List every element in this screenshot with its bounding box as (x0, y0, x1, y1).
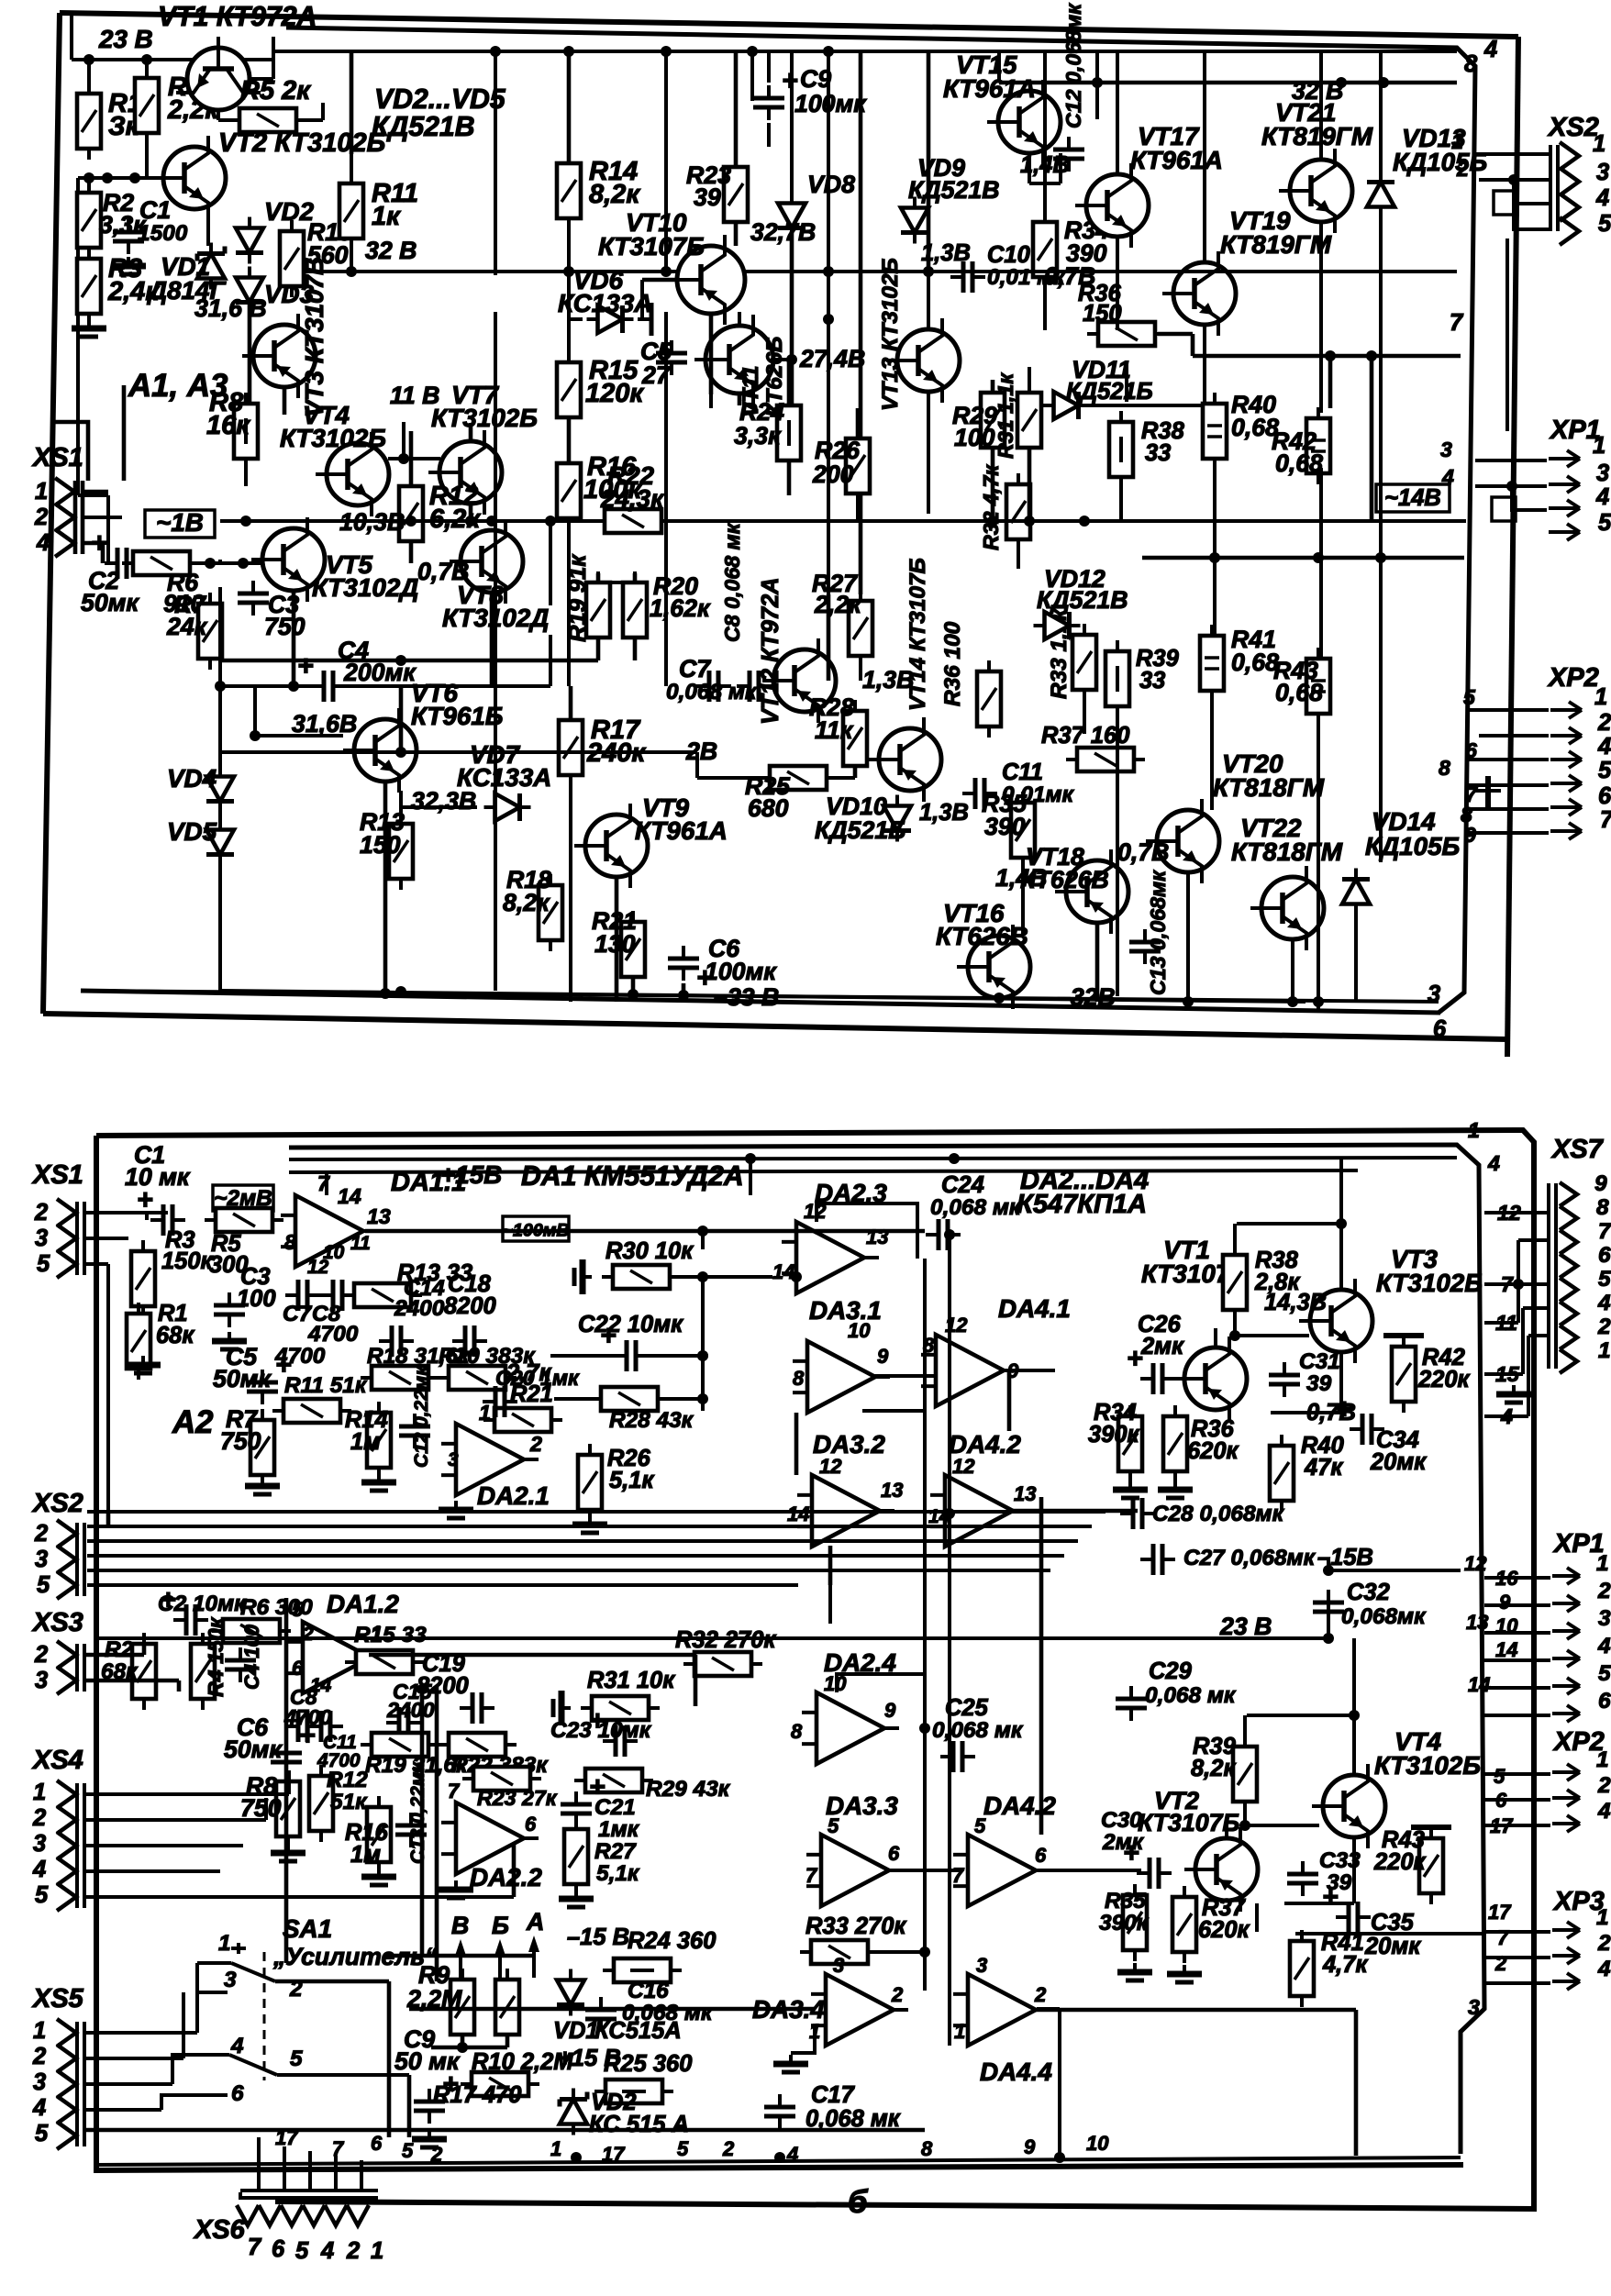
svg-text:C7: C7 (679, 655, 711, 682)
op-amp DA2.1 (441, 1401, 550, 1510)
op-amp DA1.1 (281, 1160, 502, 1278)
wire top left step (52, 385, 124, 481)
resistor R14 (557, 152, 640, 229)
resistor R31 (994, 372, 1041, 459)
svg-text:1м: 1м (350, 1842, 381, 1868)
svg-text:3: 3 (1596, 460, 1609, 486)
resistor R1 (77, 83, 142, 160)
capacitor C26 (1127, 1312, 1184, 1394)
label DA2 DA4 (1017, 1166, 1149, 1219)
junction dots bus568 (240, 516, 497, 527)
resistor R21b (483, 1360, 562, 1432)
svg-text:R23 27к: R23 27к (477, 1786, 558, 1810)
resistor R13 (360, 808, 413, 890)
wire rail 610b (78, 495, 108, 563)
svg-text:7: 7 (1497, 1926, 1510, 1949)
ground R30b (574, 1259, 592, 1294)
capacitor C21 (561, 1772, 640, 1842)
svg-text:0,68: 0,68 (1275, 449, 1323, 477)
node -15V (1317, 1545, 1373, 1570)
ground DA2.2 (271, 1844, 473, 1898)
node 0.7V a (417, 558, 469, 585)
svg-text:~1В: ~1В (156, 508, 204, 537)
capacitor C11c (285, 1711, 361, 1771)
svg-text:C22 10мк: C22 10мк (578, 1312, 683, 1337)
node 11V (390, 382, 439, 409)
svg-text:5: 5 (1598, 211, 1611, 237)
svg-text:5,1к: 5,1к (609, 1468, 654, 1493)
ground XS7 (1496, 1385, 1531, 1403)
svg-text:XS1: XS1 (31, 443, 83, 472)
svg-text:17: 17 (1488, 1901, 1512, 1924)
resistor R27 (812, 570, 872, 667)
capacitor C10 (950, 242, 1066, 293)
svg-text:13: 13 (1014, 1482, 1036, 1505)
svg-text:3: 3 (1440, 438, 1452, 461)
svg-text:R11 51к: R11 51к (284, 1373, 368, 1398)
wire 23V rail (72, 15, 275, 65)
label VT17 (1130, 122, 1223, 174)
svg-text:0,068 мк: 0,068 мк (1145, 1683, 1237, 1708)
capacitor C5b (213, 1343, 292, 1404)
capacitor C31 (1269, 1349, 1340, 1397)
label VT2b (1138, 1787, 1239, 1836)
label VT12 (758, 577, 783, 725)
svg-text:R33 270к: R33 270к (805, 1913, 906, 1939)
wire xs5 feeds (84, 1963, 925, 2130)
grounds VT2 area (1117, 1963, 1202, 1982)
svg-text:11к: 11к (815, 716, 854, 744)
diode VD14 (1342, 807, 1460, 915)
transistor VT6 (343, 708, 417, 793)
wire input buses (87, 1512, 1105, 1585)
svg-text:8: 8 (793, 1367, 805, 1390)
transistor VT10 (666, 235, 745, 325)
svg-text:3: 3 (35, 1226, 48, 1251)
svg-text:4: 4 (320, 2238, 334, 2264)
capacitor C3 (238, 581, 306, 640)
label VT18 (1020, 843, 1109, 893)
svg-text:1: 1 (35, 479, 48, 505)
svg-text:А: А (526, 1908, 544, 1936)
svg-text:XP2: XP2 (1547, 663, 1599, 693)
svg-text:12: 12 (307, 1257, 329, 1278)
resistor R16 (557, 452, 642, 529)
svg-text:7: 7 (1450, 310, 1464, 336)
svg-text:12: 12 (819, 1455, 842, 1478)
svg-text:5: 5 (292, 1598, 304, 1621)
svg-text:XS4: XS4 (31, 1746, 83, 1775)
node -32V (1057, 983, 1116, 1011)
wire R4 (145, 60, 149, 78)
svg-text:1: 1 (1596, 1905, 1609, 1930)
svg-text:3: 3 (448, 1449, 459, 1470)
capacitor C15 (386, 1680, 435, 1738)
svg-text:2: 2 (34, 1521, 48, 1547)
svg-text:+: + (1127, 1344, 1143, 1374)
resistor R23 (686, 156, 748, 233)
svg-text:8: 8 (284, 1230, 296, 1254)
svg-text:+: + (1336, 1394, 1352, 1425)
diode VD6 (558, 266, 652, 333)
svg-text:C25: C25 (945, 1695, 989, 1721)
capacitor C19 (417, 1651, 494, 1724)
connector XS5 (31, 1984, 84, 2149)
label VT19 (1220, 206, 1332, 259)
diode VD5 (167, 817, 234, 866)
svg-text:КТ3102Д: КТ3102Д (312, 573, 418, 602)
svg-text:1500: 1500 (138, 221, 188, 246)
wire DA32 in col (796, 1413, 830, 1585)
svg-text:DA1.2: DA1.2 (327, 1590, 399, 1618)
svg-text:50 мк: 50 мк (394, 2047, 461, 2075)
node 1.3V b (919, 800, 969, 826)
wire vt10 cluster (642, 51, 858, 521)
transistor VT9 (574, 804, 648, 888)
wire 2V rail (220, 747, 767, 778)
svg-text:5: 5 (37, 1572, 50, 1598)
svg-text:C8 0,068 мк: C8 0,068 мк (720, 522, 744, 642)
svg-text:4,7к: 4,7к (1322, 1952, 1368, 1978)
svg-text:9: 9 (1594, 1171, 1607, 1196)
wire VT6 emitter (401, 791, 477, 824)
capacitor C8b (307, 1280, 359, 1347)
svg-text:VT1 КТ972А: VT1 КТ972А (158, 2, 317, 32)
junction dots mid (697, 1271, 802, 1361)
boxed label ~100mV (502, 1216, 569, 1241)
wire VT13 col (927, 51, 931, 272)
feedback DA2.4 (837, 1674, 925, 1728)
connector XS1a (31, 443, 83, 557)
svg-text:3: 3 (976, 1954, 987, 1977)
resistor R15 (557, 351, 644, 428)
resistor R25 (745, 766, 838, 822)
svg-text:14: 14 (1495, 1638, 1517, 1661)
transistor VT14 (868, 717, 941, 802)
capacitor C9b (394, 2025, 461, 2124)
capacitor C9 (753, 65, 867, 120)
wire mid bus (560, 518, 563, 521)
label R36r (940, 621, 965, 706)
label VT4b (1374, 1727, 1481, 1780)
svg-text:C13 0,068мк: C13 0,068мк (1146, 870, 1170, 995)
grounds R34b R36c (1113, 1481, 1193, 1498)
wire right cluster (993, 51, 1205, 1002)
node 1.4V a (1020, 152, 1070, 178)
diode VD11 (1043, 356, 1153, 419)
wire top inner rail (273, 46, 1457, 57)
resistor R31b (581, 1668, 675, 1720)
svg-text:1: 1 (1451, 129, 1463, 153)
svg-text:11: 11 (350, 1233, 371, 1254)
svg-text:XS2: XS2 (31, 1489, 83, 1518)
resistor R32 (979, 464, 1030, 550)
resistor R2 (77, 182, 147, 259)
wire VT6 base (250, 686, 343, 741)
svg-text:C35: C35 (1371, 1910, 1415, 1936)
label VT14 (905, 558, 930, 711)
label VT15 (943, 50, 1036, 103)
transistor VT20 (1146, 799, 1219, 883)
wire bus 748 (215, 681, 550, 692)
resistor R28b (590, 1387, 694, 1433)
label VT20 (1213, 749, 1325, 802)
svg-text:C32: C32 (1347, 1580, 1390, 1605)
node 10.3V (339, 508, 405, 536)
svg-text:0,7В: 0,7В (1117, 838, 1169, 866)
svg-text:620к: 620к (1198, 1917, 1250, 1943)
svg-text:6: 6 (292, 1657, 304, 1680)
op-amp DA2.2 (441, 1780, 542, 1891)
node 2V (685, 738, 717, 765)
capacitor C33 (1287, 1848, 1361, 1896)
wire VT1b cluster (1216, 1159, 1347, 1413)
wire DA12 out (369, 1655, 695, 1706)
svg-text:R30 10к: R30 10к (606, 1238, 694, 1264)
resistor R3b (131, 1227, 214, 1317)
svg-text:C11: C11 (1002, 760, 1043, 785)
resistor R8 (206, 388, 258, 470)
resistor R33 (1047, 608, 1096, 701)
feedback rect DA2.3 (817, 1203, 917, 1259)
resistor R12 (399, 475, 481, 552)
resistor R24b (603, 1928, 716, 1982)
ground DA2.1 (245, 1473, 473, 1518)
svg-text:3,3к: 3,3к (734, 422, 782, 449)
svg-text:VD8: VD8 (807, 171, 855, 198)
svg-text:DA3.1: DA3.1 (809, 1296, 882, 1325)
wire top rails b (289, 1153, 1457, 1195)
svg-text:А2: А2 (172, 1404, 213, 1440)
op-amp DA3.4 (752, 1954, 908, 2046)
op-amp DA3.1 (793, 1296, 890, 1413)
diode VD12 (1034, 565, 1128, 639)
resistor R12b (309, 1765, 368, 1842)
op-amp DA4.2a (928, 1430, 1036, 1547)
node -33V (714, 983, 779, 1011)
svg-text:8: 8 (1464, 51, 1478, 77)
svg-text:1: 1 (1593, 131, 1605, 157)
svg-text:620к: 620к (1187, 1438, 1239, 1464)
resistor R3 (77, 248, 160, 325)
svg-text:750: 750 (220, 1427, 261, 1455)
svg-text:33: 33 (1145, 440, 1171, 466)
wire R30b (670, 1271, 772, 1356)
svg-text:8: 8 (791, 1720, 803, 1743)
ground R27c (559, 1890, 594, 1907)
wire right rail 608 (1142, 552, 1464, 563)
connector XP2 (1439, 663, 1611, 847)
svg-text:R36 100: R36 100 (940, 621, 965, 706)
wires XP3 (1484, 1932, 1550, 1983)
wire XS1a feeds (83, 492, 122, 563)
wire verticals right (928, 51, 1381, 1007)
svg-text:2: 2 (1597, 1773, 1611, 1798)
svg-text:DA4.4: DA4.4 (980, 2058, 1052, 2086)
ground R31b (553, 1691, 571, 1725)
svg-text:20мк: 20мк (1370, 1449, 1427, 1475)
svg-text:6: 6 (1433, 1016, 1447, 1042)
svg-text:5: 5 (828, 1814, 839, 1837)
svg-text:2: 2 (891, 1983, 904, 2006)
op-amp DA4.4 (953, 1954, 1052, 2086)
transistor VT18 (1055, 849, 1128, 934)
capacitor C2 (81, 528, 139, 616)
svg-text:КД521В: КД521В (372, 112, 475, 142)
svg-text:6: 6 (272, 2236, 285, 2262)
pin 8 top right (1464, 51, 1478, 77)
transistor VT13 (886, 318, 960, 403)
node 23V b (1219, 1613, 1272, 1640)
svg-text:5: 5 (677, 2137, 689, 2160)
svg-text:31,6 В: 31,6 В (194, 294, 267, 322)
wire bottom bus (220, 986, 1305, 1004)
svg-text:XS3: XS3 (31, 1608, 83, 1637)
svg-text:750: 750 (264, 613, 306, 640)
resistor R21a (592, 907, 645, 988)
svg-text:XS2: XS2 (1547, 113, 1599, 142)
label C7b (274, 1302, 326, 1369)
svg-text:5: 5 (1463, 685, 1476, 709)
wire VT1 emitter to R5 (218, 103, 323, 120)
connector XP1b (1464, 1529, 1611, 1722)
svg-text:1: 1 (1596, 1747, 1609, 1772)
svg-text:КТ818ГМ: КТ818ГМ (1213, 773, 1325, 802)
wire left col (218, 587, 222, 991)
svg-text:3: 3 (35, 1668, 48, 1693)
transistor VT21 (1279, 149, 1352, 233)
svg-text:1: 1 (954, 2020, 965, 2043)
resistor R18b (361, 1344, 471, 1390)
svg-text:9: 9 (1499, 1591, 1511, 1614)
capacitor C28b (1120, 1498, 1285, 1529)
svg-text:2: 2 (302, 1624, 314, 1645)
wire VT7 up (469, 423, 473, 440)
diode VD10 (815, 793, 911, 844)
label A2 (172, 1404, 213, 1440)
wire XS3 feeds (84, 1644, 179, 1691)
capacitor C2b (158, 1585, 247, 1636)
wires XS7 (1484, 1213, 1547, 1416)
svg-text:R31 1,1к: R31 1,1к (994, 372, 1017, 459)
svg-text:3: 3 (33, 1831, 46, 1857)
wire xs4 feeds (84, 1770, 514, 1897)
resistor R4 (135, 67, 219, 144)
label R10b (472, 2049, 573, 2075)
svg-text:12: 12 (1464, 1552, 1487, 1575)
zener VD2b (560, 2089, 689, 2138)
svg-text:КТ3107Б: КТ3107Б (1138, 1809, 1239, 1836)
capacitor C23 (550, 1706, 652, 1757)
svg-text:C10: C10 (987, 242, 1030, 268)
svg-text:0,068 мк: 0,068 мк (666, 680, 758, 704)
ground R3 (72, 319, 106, 337)
capacitor C16 (585, 1979, 714, 2032)
svg-text:20мк: 20мк (1364, 1934, 1421, 1959)
svg-text:8: 8 (921, 2137, 933, 2160)
transistor VT2 (152, 136, 226, 220)
svg-text:~14В: ~14В (1384, 485, 1441, 511)
resistor R20b (438, 1344, 536, 1390)
svg-text:390: 390 (984, 813, 1026, 840)
capacitor C29 (1116, 1658, 1237, 1721)
svg-text:4: 4 (1597, 734, 1611, 760)
svg-text:C31: C31 (1299, 1349, 1340, 1374)
arrows ABC (451, 1908, 544, 1981)
svg-text:КТ3102Б: КТ3102Б (1374, 1751, 1481, 1780)
svg-text:14: 14 (772, 1260, 794, 1283)
bar R42b (1383, 1336, 1424, 1347)
wire left ladder (286, 1598, 437, 1981)
svg-text:XS6: XS6 (193, 2215, 246, 2245)
wire VT5 emitter down (288, 590, 299, 692)
ground C1 (111, 257, 146, 274)
svg-text:R29 43к: R29 43к (646, 1777, 731, 1802)
connector XS7 (1495, 1135, 1611, 1428)
capacitor C34 (1336, 1394, 1427, 1475)
wire bus 568 (220, 516, 716, 527)
svg-text:100мк: 100мк (705, 958, 777, 985)
svg-text:7: 7 (1598, 1219, 1611, 1244)
svg-text:1м: 1м (350, 1429, 381, 1455)
wire VT1 collector (250, 37, 273, 79)
wire VD6 (569, 218, 651, 336)
svg-text:220к: 220к (1373, 1849, 1427, 1875)
connector XP3 (1488, 1887, 1611, 1990)
label VT3b (1376, 1245, 1483, 1297)
wire xs6 feeds (259, 2137, 361, 2191)
node 0.7V b (1044, 262, 1095, 290)
resistor R28 (809, 693, 867, 777)
svg-text:R4 150к: R4 150к (204, 1616, 228, 1697)
svg-text:C27 0,068мк: C27 0,068мк (1183, 1546, 1317, 1570)
node 23 V (98, 25, 153, 53)
svg-text:4: 4 (1483, 37, 1497, 62)
svg-text:5: 5 (402, 2139, 414, 2162)
transistor VT3b (1299, 1279, 1372, 1363)
transistor VT19 (1162, 251, 1236, 336)
svg-text:КТ961Б: КТ961Б (411, 702, 503, 730)
wire verts extra (246, 51, 683, 1002)
wire rail 296 (303, 266, 1457, 277)
wire VT2b cluster (1227, 1638, 1360, 1903)
top block outer border (43, 13, 1518, 1057)
capacitor C4 (297, 637, 417, 702)
connector XS2 (1451, 113, 1611, 245)
diode VD13 (1367, 124, 1487, 218)
node 31.6V a (194, 294, 267, 322)
svg-text:C24: C24 (941, 1172, 984, 1198)
capacitor C35 (1322, 1882, 1421, 1959)
resistor R25b (594, 2051, 692, 2103)
svg-text:1: 1 (33, 2018, 46, 2044)
diode VD3 (236, 267, 315, 314)
svg-text:8200: 8200 (417, 1673, 469, 1699)
svg-text:2мк: 2мк (1102, 1830, 1145, 1855)
svg-text:50мк: 50мк (224, 1736, 283, 1763)
svg-text:6: 6 (1598, 1243, 1611, 1268)
transistor VT5 (251, 517, 325, 602)
svg-text:0,068мк: 0,068мк (1341, 1604, 1427, 1629)
op-amp DA1.2 (288, 1590, 399, 1696)
svg-text:7: 7 (1600, 807, 1611, 833)
svg-text:C23 10мк: C23 10мк (550, 1718, 652, 1743)
svg-text:C29: C29 (1149, 1658, 1193, 1684)
svg-text:DA4.2: DA4.2 (983, 1791, 1056, 1820)
node 31.6V b (292, 710, 357, 738)
svg-text:150к: 150к (161, 1248, 214, 1274)
svg-text:2: 2 (1456, 157, 1469, 181)
